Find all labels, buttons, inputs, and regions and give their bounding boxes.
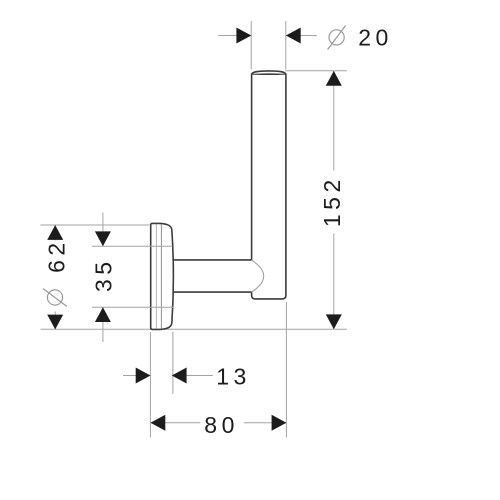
arrow 35 bottom (points up) [95, 307, 111, 322]
tube top inner ellipse arc [253, 73, 285, 74]
extension line 152 top [285, 70, 347, 72]
extension line bottom shared (dia62 bottom / 152 bottom) [41, 328, 347, 330]
extension line 80 right [285, 302, 287, 438]
arrow dia20 right [286, 28, 301, 44]
dimension line dia62 [54, 225, 56, 330]
tube fill [252, 71, 286, 299]
extension line dia62 top [41, 224, 150, 226]
arrow 80 left (points left) [151, 415, 166, 431]
extension line 35 bottom (over plate) [92, 306, 173, 308]
wall plate inner rim line 1 [155, 224, 157, 328]
dimension line 13 [123, 375, 213, 377]
tube left edge upper [251, 74, 253, 260]
svg-text:13: 13 [216, 364, 251, 390]
arm bottom edge [173, 291, 251, 293]
diameter symbol for 20 [328, 26, 346, 50]
wall plate inner rim line 2 [160, 224, 162, 329]
diameter symbol for 62 (rotated dimension) [43, 289, 67, 307]
arrow 35 top (points down) [95, 231, 111, 246]
svg-text:20: 20 [358, 24, 393, 50]
extension line 35 top (over plate) [92, 245, 173, 247]
svg-text:35: 35 [91, 257, 117, 292]
tube top dome [252, 71, 286, 74]
arrow dia20 left [236, 28, 251, 44]
extension line dia20 right [285, 21, 287, 70]
arrow 13 right (points left) [172, 368, 187, 384]
arrow 80 right (points right) [272, 415, 287, 431]
arm-tube junction curve [252, 260, 264, 292]
extension line wall face down (13/80 left) [149, 332, 151, 438]
tube top chamfer base line [252, 73, 286, 75]
dimension line dia20 [218, 35, 316, 37]
tube right edge and bottom [252, 74, 286, 299]
arrow dia62 bottom [47, 315, 63, 330]
arrow 152 top [326, 71, 342, 86]
svg-text:152: 152 [319, 175, 345, 227]
wall plate outline [151, 223, 174, 329]
dimension line 35 [102, 213, 104, 343]
arm top edge [173, 259, 251, 261]
extension line 13 right [172, 332, 174, 394]
arrow 13 left (points right) [136, 368, 151, 384]
arrow 152 bottom [326, 314, 342, 329]
arrow dia62 top [47, 225, 63, 240]
dimension line 80 [151, 422, 287, 424]
svg-text:80: 80 [204, 412, 239, 438]
extension line dia20 left [250, 21, 252, 70]
dimension line 152 [333, 71, 335, 330]
svg-text:62: 62 [44, 238, 70, 273]
